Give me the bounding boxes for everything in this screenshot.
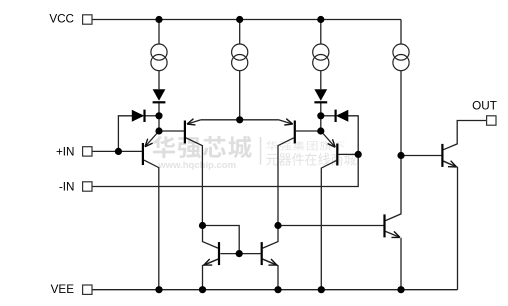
node VCC-CS1 <box>155 16 162 23</box>
wire Q5 emitter to VEE <box>203 259 219 290</box>
transistor Q4 <box>321 131 338 166</box>
node B <box>155 112 162 119</box>
watermark divider <box>260 137 262 165</box>
node VEE-Q4 <box>318 286 325 293</box>
node mirror left <box>199 222 206 229</box>
node E <box>317 127 324 134</box>
terminal VCC <box>83 15 92 24</box>
wire Q6 emitter to VEE <box>263 259 278 290</box>
diode D1 <box>153 89 166 102</box>
diode D4 <box>336 110 349 122</box>
svg-text:OUT: OUT <box>472 99 497 112</box>
node VCC-CS3 <box>317 16 324 23</box>
wire Q8 emitter to VEE <box>443 161 457 290</box>
wire VEE rail <box>92 289 458 291</box>
wire Q8 collector to OUT <box>443 121 486 150</box>
node VEE-Q6 <box>274 286 281 293</box>
wire D2 anode to +IN node <box>118 116 132 152</box>
node A <box>155 127 162 134</box>
svg-text:www.hqchip.com: www.hqchip.com <box>157 160 236 171</box>
node +IN junction <box>115 148 122 155</box>
wire -IN lead <box>92 116 358 187</box>
wire Q7 base from mirror <box>278 225 384 227</box>
wire D2 cathode to node B <box>144 115 159 117</box>
wire Q6 collector riser <box>263 226 278 249</box>
node VEE-Q5 <box>199 286 206 293</box>
transistor Q6 <box>262 242 277 265</box>
wire node A to Q2 base <box>159 130 184 132</box>
node Q4 base <box>355 151 362 158</box>
transistor Q5 <box>204 242 219 265</box>
current source CS1 <box>151 44 167 71</box>
wire VCC rail <box>92 19 401 21</box>
wire CS1 drop <box>158 20 160 45</box>
terminal -IN <box>83 182 92 191</box>
node emitter rail <box>236 116 243 123</box>
wire mirror base rail <box>220 253 260 255</box>
wire Q3 collector to mirror <box>278 138 294 226</box>
wire CS3 drop <box>320 20 322 45</box>
diode D2 <box>132 110 145 122</box>
diode D3 <box>314 89 327 102</box>
watermark line2 <box>266 153 356 166</box>
wire CS4 drop <box>400 20 402 45</box>
transistor Q8 <box>442 144 456 167</box>
wire Q8 base <box>401 155 441 157</box>
svg-text:VCC: VCC <box>49 13 74 26</box>
current source CS4 <box>393 44 409 71</box>
wire Q5 collector riser <box>203 226 219 249</box>
node VEE-Q1 <box>155 286 162 293</box>
node mirror right <box>274 222 281 229</box>
terminal +IN <box>83 147 92 156</box>
wire Q7 collector <box>386 156 402 221</box>
transistor Q2 <box>185 120 201 144</box>
current source CS3 <box>313 44 329 71</box>
wire emitter rail <box>201 119 279 121</box>
node mirror base <box>236 250 243 257</box>
node F <box>397 152 404 159</box>
node VEE-Q7 <box>397 286 404 293</box>
wire Q4 collector to VEE <box>321 161 336 290</box>
svg-text:VEE: VEE <box>51 283 75 296</box>
node D <box>317 112 324 119</box>
wire Q2 collector to mirror <box>186 138 203 226</box>
watermark line1 <box>266 141 344 151</box>
transistor Q1 <box>143 131 159 165</box>
wire Q7 emitter to VEE <box>400 238 402 290</box>
wire CS2 drop <box>239 20 241 45</box>
wire mirror diode tie <box>203 226 240 254</box>
transistor Q7 <box>385 214 400 237</box>
current source CS2 <box>232 44 248 71</box>
node VCC-CS2 <box>236 16 243 23</box>
transistor Q3 <box>279 120 295 144</box>
watermark big text <box>152 136 251 158</box>
terminal VEE <box>83 285 92 294</box>
svg-text:-IN: -IN <box>59 181 75 194</box>
svg-text:+IN: +IN <box>56 145 75 158</box>
wire Q1 collector to VEE <box>144 160 159 290</box>
wire Q4 base <box>338 153 358 155</box>
wire +IN lead <box>92 150 142 152</box>
wire Q3 base to node E <box>296 130 321 132</box>
wire D4 cathode to node D <box>321 115 336 117</box>
terminal OUT <box>487 116 496 125</box>
